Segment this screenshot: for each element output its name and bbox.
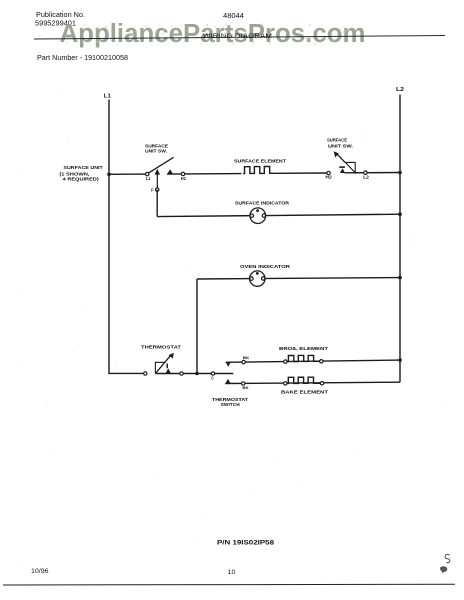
svg-text:4 REQUIRED): 4 REQUIRED) (63, 177, 99, 183)
svg-text:SURFACE UNIT: SURFACE UNIT (63, 165, 102, 171)
svg-text:BAKE ELEMENT: BAKE ELEMENT (281, 389, 328, 395)
svg-text:BK: BK (243, 356, 250, 360)
svg-text:SURFACE INDICATOR: SURFACE INDICATOR (235, 201, 290, 207)
svg-text:H1: H1 (181, 176, 187, 181)
svg-text:UNIT SW.: UNIT SW. (328, 143, 353, 149)
svg-text:Part Number - 19100210058: Part Number - 19100210058 (37, 53, 128, 62)
svg-text:L2: L2 (363, 175, 370, 180)
svg-text:L2: L2 (396, 87, 404, 93)
svg-text:P/N 19IS02IP58: P/N 19IS02IP58 (217, 540, 274, 547)
svg-text:BROIL ELEMENT: BROIL ELEMENT (279, 346, 328, 352)
svg-text:SWITCH: SWITCH (221, 402, 241, 408)
svg-text:H2: H2 (325, 175, 332, 180)
svg-text:SURFACE: SURFACE (327, 137, 348, 143)
svg-text:OVEN INDICATOR: OVEN INDICATOR (240, 264, 291, 270)
svg-text:48044: 48044 (223, 13, 244, 20)
svg-text:F: F (151, 187, 154, 192)
svg-text:L1: L1 (146, 176, 151, 181)
svg-text:10: 10 (228, 569, 237, 576)
svg-text:L1: L1 (104, 93, 111, 99)
svg-text:UNIT SW.: UNIT SW. (145, 148, 167, 154)
svg-text:THERMOSTAT: THERMOSTAT (141, 344, 181, 350)
svg-text:WIRING DIAGRAM: WIRING DIAGRAM (203, 33, 272, 40)
svg-text:Publication No.: Publication No. (36, 12, 85, 19)
svg-text:BK: BK (242, 386, 249, 390)
svg-text:SURFACE ELEMENT: SURFACE ELEMENT (234, 158, 286, 164)
svg-text:10/96: 10/96 (31, 568, 49, 575)
svg-text:C: C (211, 376, 214, 381)
